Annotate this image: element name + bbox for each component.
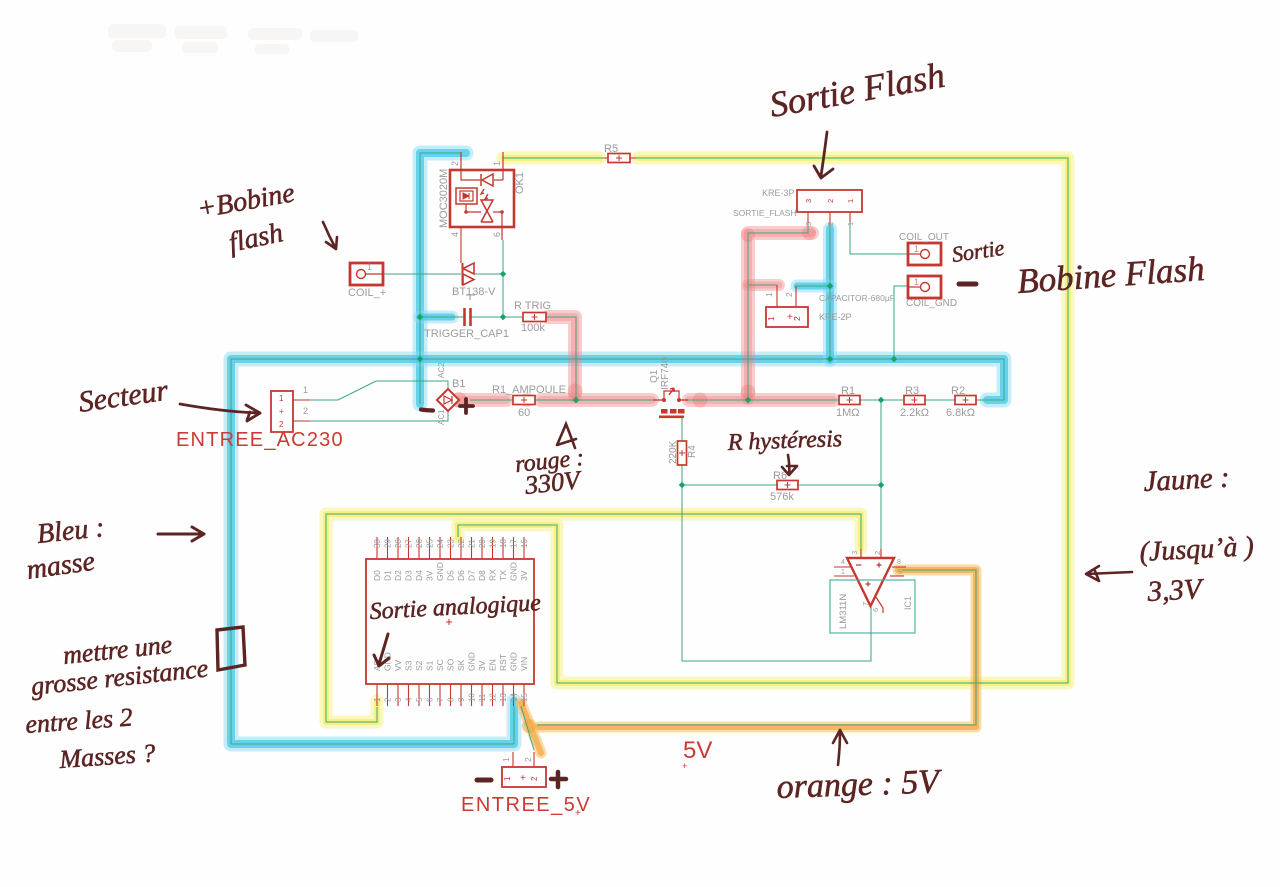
bridge rectifier B1: [437, 362, 465, 425]
svg-text:R TRIG: R TRIG: [514, 300, 551, 312]
svg-text:3: 3: [804, 222, 813, 226]
svg-text:KRE-2P: KRE-2P: [819, 312, 852, 322]
wire net 330V: SORTIE_FLASH pin3 down to main line: [748, 225, 808, 400]
svg-text:1: 1: [279, 394, 284, 403]
annotation arrow sortie analogique: [374, 634, 389, 666]
IC1 body box: [830, 580, 915, 633]
wire masse highlight blue: main GND rail: [231, 359, 1004, 744]
svg-text:1: 1: [373, 697, 382, 702]
svg-text:10: 10: [468, 693, 477, 702]
wire net: divider tap down to comparator pin2: [880, 400, 882, 549]
svg-text:D4: D4: [414, 570, 424, 581]
wire 3.3V highlight yellow: R5 around right side to Arduino pin22: [458, 158, 1068, 683]
svg-text:1: 1: [367, 262, 372, 272]
svg-text:CAPACITOR-680μF: CAPACITOR-680μF: [819, 293, 895, 303]
wire 5V highlight orange: Arduino pin15 diagonal: [521, 703, 541, 753]
wire net GND rail: Arduino pin14 around left to R2: [231, 359, 1004, 744]
svg-text:R1_AMPOULE: R1_AMPOULE: [492, 384, 566, 396]
wire net 330V: Q1 to R1: [688, 399, 839, 401]
svg-text:RST: RST: [498, 654, 508, 671]
connector ENTREE_5V: [461, 752, 591, 819]
svg-text:3: 3: [850, 551, 859, 555]
svg-text:24: 24: [436, 539, 445, 548]
svg-text:orange : 5V: orange : 5V: [776, 763, 944, 806]
svg-text:R1: R1: [841, 385, 855, 397]
svg-text:22: 22: [457, 539, 466, 548]
svg-text:17: 17: [510, 539, 519, 548]
junction SORTIE_FLASH net / 330V line: [745, 397, 752, 404]
annotation rectangle doodle: [217, 627, 245, 670]
annotation arrow to R6: [782, 455, 797, 475]
wire 330V highlight red: R_TRIG down: [548, 317, 575, 396]
junction capacitor pin2 net: [827, 283, 834, 290]
junction R1 R3 divider: [878, 397, 885, 404]
annotation minus at ENTREE_5V: [477, 778, 491, 783]
svg-text:23: 23: [447, 539, 456, 548]
svg-text:S3: S3: [404, 660, 414, 671]
resistor R_TRIG 100k: [523, 313, 546, 322]
svg-text:4: 4: [450, 232, 460, 237]
svg-text:1: 1: [914, 277, 919, 287]
wire net: R1 to R3: [860, 399, 904, 401]
svg-text:19: 19: [489, 539, 498, 548]
svg-text:2: 2: [450, 161, 460, 166]
svg-text:27: 27: [405, 539, 414, 548]
svg-text:D5: D5: [446, 570, 456, 581]
svg-text:SK: SK: [456, 659, 466, 671]
wire 330V highlight red: Q1 to R1: [689, 393, 833, 407]
svg-text:2: 2: [303, 406, 308, 416]
svg-text:14: 14: [510, 693, 519, 702]
svg-text:GND: GND: [509, 562, 519, 581]
svg-text:6.8kΩ: 6.8kΩ: [946, 407, 975, 419]
svg-text:330V: 330V: [523, 465, 585, 500]
svg-text:29: 29: [384, 539, 393, 548]
annotation caret arrow rouge: [557, 424, 576, 448]
svg-text:2: 2: [530, 776, 539, 781]
wire net: MOC pin1 to R5: [503, 157, 604, 159]
svg-text:R4: R4: [687, 445, 698, 458]
junction GND rail / SORTIE_FLASH pin2: [827, 356, 834, 363]
annotation minus dash: [959, 282, 976, 287]
wire net 3.3V: R5 right loop to Arduino pin22: [458, 158, 1068, 683]
resistor R5: [608, 154, 630, 163]
svg-text:AC1: AC1: [437, 409, 446, 425]
svg-text:3V: 3V: [477, 660, 487, 671]
svg-text:6: 6: [492, 232, 502, 237]
svg-text:ENTREE_5V: ENTREE_5V: [461, 794, 591, 816]
annotation plus at bridge: [460, 399, 473, 413]
svg-text:2: 2: [873, 551, 882, 555]
svg-text:3V: 3V: [519, 570, 529, 581]
svg-text:R3: R3: [905, 385, 919, 397]
svg-text:SC: SC: [435, 659, 445, 671]
svg-text:GND: GND: [509, 652, 519, 671]
transistor Q1 IRF740: [649, 357, 688, 418]
wire net: capacitor pin2 to GND net: [796, 285, 830, 287]
wire net: R_TRIG to 330V line: [546, 317, 576, 400]
connector ENTREE_AC230: [176, 385, 344, 451]
annotation arrow to COIL_+: [323, 222, 337, 249]
svg-text:3: 3: [804, 199, 813, 203]
svg-text:1: 1: [303, 385, 308, 395]
svg-text:4: 4: [405, 697, 414, 702]
wire net: to R6 left: [682, 484, 777, 486]
svg-text:+: +: [279, 407, 284, 416]
annotation arrow to ENTREE_AC230: [180, 404, 260, 421]
annotation arrow orange: [833, 730, 847, 765]
annotation plus at ENTREE_5V: [551, 772, 566, 787]
5V highlight blob: [522, 719, 536, 733]
wire net 330V: R1_AMPOULE to Q1: [535, 399, 653, 401]
svg-text:1: 1: [841, 569, 845, 576]
svg-text:3V: 3V: [425, 570, 435, 581]
wire net: SORTIE_FLASH pin2 to GND rail: [829, 225, 831, 359]
svg-text:D3: D3: [404, 570, 414, 581]
svg-text:COIL_+: COIL_+: [348, 287, 386, 299]
junction BT138 / MOC pin6: [500, 271, 507, 278]
svg-text:5: 5: [898, 569, 902, 576]
wire net 5V: comparator to ENTREE_5V: [537, 570, 976, 725]
wire net: blue stub to TRIGGER_CAP1 left: [420, 316, 464, 318]
wire net: R3 to R2: [925, 399, 955, 401]
svg-text:9: 9: [457, 697, 466, 702]
svg-text:+: +: [575, 808, 581, 819]
wire net: MOC pin6 down: [502, 240, 504, 317]
svg-text:2: 2: [523, 757, 533, 762]
svg-text:D2: D2: [393, 570, 403, 581]
svg-text:16: 16: [520, 539, 529, 548]
svg-text:R5: R5: [604, 143, 618, 155]
IC module U1 (30-pin board): [366, 537, 534, 706]
svg-text:+: +: [520, 773, 526, 784]
svg-text:5: 5: [415, 697, 424, 702]
svg-text:2: 2: [784, 292, 794, 297]
wire net: TRIGGER_CAP1 right to R_TRIG: [471, 316, 523, 318]
annotation arrow jaune: [1086, 566, 1132, 581]
svg-text:IRF740: IRF740: [660, 357, 671, 390]
svg-text:2: 2: [384, 697, 393, 702]
junction R4 / R6: [679, 482, 686, 489]
wire net: R4 to R6 row: [681, 465, 683, 485]
wire 330V highlight red: R1_AMPOULE to Q1: [541, 393, 652, 407]
svg-text:576k: 576k: [770, 491, 794, 503]
junction R6 / comparator pin2 net: [878, 482, 885, 489]
annotation arrow to SORTIE_FLASH: [814, 132, 833, 178]
svg-text:R2: R2: [951, 385, 965, 397]
svg-text:MOC3020M: MOC3020M: [438, 169, 450, 228]
svg-text:ENTREE_AC230: ENTREE_AC230: [176, 429, 344, 451]
svg-text:1: 1: [766, 316, 776, 321]
svg-text:GND: GND: [435, 562, 445, 581]
svg-text:1: 1: [492, 161, 502, 166]
resistor R2: [955, 396, 976, 405]
svg-text:BT138-V: BT138-V: [452, 286, 496, 298]
svg-text:S1: S1: [425, 660, 435, 671]
resistor R4 220K: [668, 440, 698, 465]
wire 330V highlight red: bridge plus to R1_AMPOULE: [457, 393, 506, 407]
junction R_TRIG net / 330V line: [573, 397, 580, 404]
svg-text:D8: D8: [477, 570, 487, 581]
wire 330V highlight red: capacitor pin1 stub: [748, 279, 779, 291]
svg-text:1: 1: [846, 199, 855, 203]
svg-text:OK1: OK1: [514, 172, 526, 194]
annotation arrow bleu: [158, 527, 204, 541]
330V highlight blobs: [451, 392, 467, 408]
wire net: capacitor pin1 stub: [748, 284, 777, 286]
optocoupler OK1 MOC3020M: [438, 152, 526, 240]
svg-text:TRIGGER_CAP1: TRIGGER_CAP1: [424, 328, 509, 340]
svg-text:12: 12: [489, 693, 498, 702]
junction trigger cap stub: [417, 314, 424, 321]
svg-text:+: +: [682, 761, 687, 771]
svg-text:B1: B1: [452, 378, 465, 390]
svg-text:2: 2: [826, 222, 835, 226]
svg-text:D6: D6: [456, 570, 466, 581]
wire net: Q1 source to R4: [681, 418, 683, 441]
wire net: BT138 to pin6 net: [475, 273, 503, 275]
svg-text:3,3V: 3,3V: [1146, 573, 1206, 608]
wire net 330V: bridge plus to R1_AMPOULE: [470, 399, 513, 401]
wire masse highlight blue: stub to TRIGGER_CAP1: [420, 311, 452, 324]
svg-text:2: 2: [826, 199, 835, 203]
svg-text:GND: GND: [467, 652, 477, 671]
svg-text:Jaune :: Jaune :: [1143, 462, 1231, 498]
svg-text:AC2: AC2: [437, 362, 446, 378]
svg-text:1: 1: [501, 757, 511, 762]
wire net: MOC pin2 to bridge AC minus: [420, 153, 461, 404]
capacitor 680uF KRE-2P: [764, 285, 895, 327]
svg-text:(Jusqu’à ): (Jusqu’à ): [1139, 531, 1255, 568]
svg-text:1MΩ: 1MΩ: [836, 407, 860, 419]
svg-text:100k: 100k: [521, 322, 545, 334]
svg-text:7: 7: [861, 602, 870, 606]
svg-text:28: 28: [394, 539, 403, 548]
wire net: ENTREE_AC230 pin1 to bridge AC2: [310, 381, 448, 400]
junction GND rail / COIL_GND: [891, 356, 898, 363]
svg-text:VIN: VIN: [519, 657, 529, 671]
svg-text:5V: 5V: [683, 737, 712, 764]
svg-text:6: 6: [426, 697, 435, 702]
svg-text:13: 13: [499, 693, 508, 702]
svg-text:2.2kΩ: 2.2kΩ: [900, 407, 929, 419]
junction trigger cap / R_TRIG: [500, 314, 507, 321]
connector COIL_GND: [906, 276, 957, 309]
connector COIL_+: [348, 262, 386, 299]
svg-text:15: 15: [520, 693, 529, 702]
faint bleed-through marks (decorative scan artifact): [108, 24, 358, 54]
triac BT138-V: [452, 227, 496, 300]
svg-text:1: 1: [764, 292, 774, 297]
svg-text:60: 60: [518, 407, 530, 419]
svg-text:KRE-3P: KRE-3P: [762, 188, 795, 198]
connector COIL_OUT: [899, 232, 949, 265]
svg-text:Q1: Q1: [649, 369, 660, 383]
svg-text:RX: RX: [488, 569, 498, 581]
wire net: R6 right to divider tap: [798, 484, 881, 486]
annotation minus at bridge: [421, 410, 433, 411]
svg-text:21: 21: [468, 539, 477, 548]
wire net: SORTIE_FLASH pin1 to COIL_OUT: [850, 222, 908, 254]
svg-text:30: 30: [373, 539, 382, 548]
wire 330V highlight red: SORTIE_FLASH pin3 down: [748, 233, 812, 398]
svg-text:SO: SO: [446, 658, 456, 671]
svg-text:6: 6: [871, 608, 880, 612]
svg-text:D7: D7: [467, 570, 477, 581]
wire 3.3V highlight yellow: Arduino pin2 loop to comparator pin3: [326, 514, 861, 722]
resistor R6: [777, 481, 798, 490]
wire net: COIL_GND to GND rail: [894, 286, 908, 359]
wire net: COIL_+ to BT138: [383, 273, 461, 275]
wire net 5V: Arduino pin15 diagonal: [521, 706, 534, 750]
svg-text:COIL_OUT: COIL_OUT: [899, 232, 949, 243]
svg-text:4: 4: [841, 559, 845, 566]
connector SORTIE_FLASH KRE-3P: [733, 188, 862, 226]
svg-text:TX: TX: [498, 570, 508, 581]
resistor R1: [839, 396, 860, 405]
svg-text:VV: VV: [393, 659, 403, 671]
svg-text:1: 1: [914, 244, 919, 254]
svg-text:25: 25: [426, 539, 435, 548]
resistor R1_AMPOULE: [513, 396, 535, 405]
wire masse highlight blue: SORTIE_FLASH pin2 to rail: [823, 229, 837, 360]
svg-text:11: 11: [478, 693, 487, 702]
resistor R3: [904, 396, 925, 405]
svg-text:7: 7: [436, 697, 445, 702]
svg-text:D0: D0: [372, 570, 382, 581]
svg-text:S2: S2: [414, 660, 424, 671]
junction GND rail / bridge minus drop: [417, 356, 424, 363]
svg-text:LM311N: LM311N: [838, 594, 849, 629]
wire net 3.3V: Arduino pin2 loop to comparator pin3: [326, 514, 861, 722]
svg-text:D1: D1: [383, 570, 393, 581]
wire masse highlight blue: MOC pin2 to bridge minus: [420, 153, 466, 404]
svg-text:220K: 220K: [668, 440, 679, 464]
wire masse highlight blue: capacitor pin2 stub: [797, 280, 830, 293]
svg-text:2: 2: [279, 420, 284, 429]
svg-text:SORTIE_FLASH: SORTIE_FLASH: [733, 208, 797, 218]
svg-text:2: 2: [792, 316, 802, 321]
wire net: feedback loop to comparator pin7: [682, 485, 871, 661]
svg-text:26: 26: [415, 539, 424, 548]
svg-text:3: 3: [394, 697, 403, 702]
svg-text:1: 1: [846, 222, 855, 226]
svg-text:18: 18: [499, 539, 508, 548]
svg-text:8: 8: [897, 559, 901, 566]
wire 3.3V highlight yellow: MOC pin1 to R5: [503, 152, 600, 165]
wire net: ENTREE_AC230 pin2 to bridge AC1: [310, 411, 448, 421]
svg-text:EN: EN: [488, 659, 498, 671]
svg-text:8: 8: [447, 697, 456, 702]
svg-text:R hystéresis: R hystéresis: [726, 426, 842, 456]
svg-text:20: 20: [478, 539, 487, 548]
svg-text:COIL_GND: COIL_GND: [906, 298, 957, 309]
svg-text:IC1: IC1: [903, 596, 913, 610]
svg-text:1: 1: [503, 776, 512, 781]
capacitor TRIGGER_CAP1: [424, 308, 509, 340]
op-amp IC1 LM311N comparator: [834, 549, 906, 613]
wire 5V highlight orange: comparator pin8 to ENTREE_5V: [538, 570, 976, 727]
